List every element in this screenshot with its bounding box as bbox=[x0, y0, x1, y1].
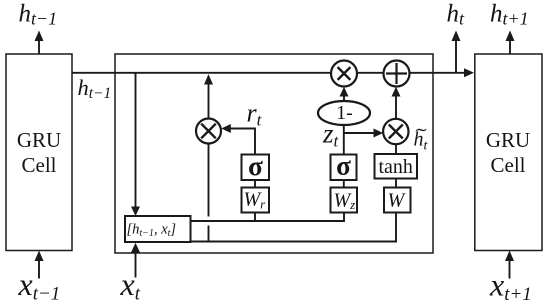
middle GRU internals box bbox=[115, 54, 433, 253]
arrow update multiply up into plus node bbox=[392, 87, 401, 119]
svg-text:σ: σ bbox=[248, 151, 263, 181]
svg-text:xt: xt bbox=[120, 266, 141, 305]
arrow h_{t-1} output (top left) bbox=[35, 31, 44, 55]
left GRU cell box bbox=[6, 54, 72, 251]
svg-text:ht: ht bbox=[447, 1, 466, 29]
svg-text:tanh: tanh bbox=[378, 156, 412, 178]
svg-text:ht−1: ht−1 bbox=[19, 1, 58, 29]
lower bus wire from concat to W bbox=[191, 213, 397, 242]
upper bus wire from concat to W_z bbox=[191, 213, 345, 222]
svg-text:ht+1: ht+1 bbox=[490, 1, 529, 29]
wire r_t from sigma up-left into reset multiply bbox=[221, 124, 255, 155]
arrow h_{t+1} output (top right) bbox=[506, 31, 515, 55]
connector update multiply down to tanh bbox=[395, 144, 397, 154]
svg-text:W: W bbox=[388, 190, 407, 212]
multiply node (top) bbox=[331, 61, 357, 87]
arrow 1- ellipse up into top multiply bbox=[340, 87, 349, 101]
right GRU cell box bbox=[475, 54, 542, 251]
svg-text:Cell: Cell bbox=[491, 153, 526, 177]
right GRU cell label bbox=[486, 128, 530, 177]
wire h main horizontal with arrow into right cell bbox=[72, 68, 474, 77]
arrow from reset multiply up into main wire bbox=[204, 74, 213, 118]
svg-text:1-: 1- bbox=[336, 102, 353, 124]
wire z_t branch right into update multiply bbox=[344, 129, 383, 138]
svg-text:GRU: GRU bbox=[17, 128, 61, 152]
wire reset multiply down to candidate bus (hop gap over upper bus) bbox=[208, 144, 210, 243]
h_t output branch arrow bbox=[452, 31, 461, 73]
multiply node (reset gate) bbox=[196, 119, 221, 144]
tanh box bbox=[375, 154, 418, 179]
W box bbox=[384, 188, 411, 213]
left GRU cell label bbox=[17, 128, 61, 177]
wire sigma_z up to 1- ellipse bbox=[343, 125, 345, 155]
arrow x_{t+1} input (bottom right) bbox=[505, 251, 514, 279]
svg-text:rt: rt bbox=[247, 99, 263, 130]
concat box bbox=[125, 216, 191, 242]
W_z box bbox=[331, 188, 358, 213]
arrow x_t input bbox=[131, 243, 140, 278]
svg-text:ht−1: ht−1 bbox=[78, 75, 112, 102]
wire branch down to concat box with arrowhead bbox=[131, 73, 140, 216]
connector sigma_z to W_z bbox=[343, 180, 345, 188]
W_r box bbox=[242, 188, 270, 213]
multiply node (update gate) bbox=[383, 119, 408, 144]
connector sigma_r to W_r bbox=[254, 180, 256, 188]
wire W_r down to upper bus bbox=[254, 213, 256, 222]
svg-text:Cell: Cell bbox=[22, 153, 57, 177]
plus node bbox=[384, 61, 410, 87]
connector tanh to W bbox=[395, 179, 397, 188]
sigma box (update) bbox=[331, 151, 357, 181]
1- ellipse bbox=[318, 101, 370, 125]
arrow x_{t-1} input (bottom left) bbox=[35, 251, 44, 279]
svg-text:GRU: GRU bbox=[486, 128, 530, 152]
svg-text:σ: σ bbox=[336, 151, 351, 181]
sigma box (reset) bbox=[242, 151, 270, 181]
